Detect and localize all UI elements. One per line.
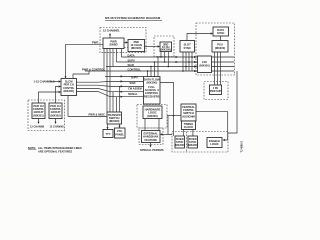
svg-text:SIGNAL: SIGNAL (128, 93, 138, 96)
svg-text:CONTROL: CONTROL (128, 68, 142, 72)
svg-text:SYNC: SYNC (183, 46, 191, 50)
svg-text:SWBD: SWBD (109, 43, 117, 47)
svg-text:CW ASSEM: CW ASSEM (128, 88, 142, 91)
svg-text:(MX300): (MX300) (188, 143, 198, 147)
svg-text:12 CHANNS: 12 CHANNS (50, 126, 65, 129)
svg-text:SPECIAL PERFMS: SPECIAL PERFMS (140, 148, 164, 152)
svg-text:1-12 CHANNELS: 1-12 CHANNELS (34, 79, 55, 83)
svg-text:SUPV: SUPV (128, 58, 136, 62)
svg-text:(MX300): (MX300) (64, 89, 74, 93)
svg-text:(MX301): (MX301) (33, 113, 43, 117)
svg-text:(MX300): (MX300) (215, 46, 225, 50)
svg-text:12 CHANNS: 12 CHANNS (30, 126, 45, 129)
svg-text:PANEL: PANEL (115, 133, 124, 137)
svg-text:(MX300): (MX300) (109, 119, 119, 123)
svg-text:PWR & CONTROL: PWR & CONTROL (82, 68, 105, 72)
svg-text:DATA: DATA (128, 53, 135, 57)
svg-text:PWR SUP: PWR SUP (210, 90, 222, 93)
svg-text:SYNC: SYNC (217, 31, 225, 35)
svg-text:SIAD: SIAD (128, 63, 134, 67)
svg-text:RECEIVERS: RECEIVERS (144, 94, 160, 98)
svg-text:CLOCK: CLOCK (184, 125, 194, 129)
svg-text:SUPV: SUPV (131, 76, 138, 79)
svg-text:SLOT: SLOT (184, 42, 192, 46)
svg-text:PWR: PWR (92, 41, 98, 45)
svg-text:LSU: LSU (202, 60, 207, 64)
svg-text:SIAD: SIAD (130, 82, 136, 85)
svg-text:ALL ITEMS WITHIN BARKER LINES: ALL ITEMS WITHIN BARKER LINES (38, 146, 82, 150)
svg-text:NOTE:: NOTE: (28, 146, 36, 150)
svg-text:(MX300): (MX300) (199, 64, 209, 68)
svg-text:PSU: PSU (217, 42, 223, 46)
svg-text:ASSIGNM: ASSIGNM (182, 114, 195, 118)
svg-text:TJ 4800-2: TJ 4800-2 (241, 140, 244, 152)
svg-text:(MX300): (MX300) (161, 48, 171, 52)
svg-text:ENABLE: ENABLE (209, 139, 220, 143)
svg-text:LOGIC: LOGIC (210, 142, 219, 146)
svg-text:(MX302): (MX302) (50, 113, 60, 117)
svg-text:(MX300): (MX300) (147, 114, 157, 118)
svg-text:(MX300): (MX300) (131, 46, 141, 50)
svg-text:TTY: TTY (105, 132, 110, 136)
svg-text:VOL: VOL (117, 129, 123, 133)
svg-text:(MX300): (MX300) (175, 143, 185, 147)
svg-text:PWR & MISC: PWR & MISC (89, 112, 105, 116)
svg-text:12 CHANNEL: 12 CHANNEL (103, 28, 120, 32)
svg-text:FEATURE: FEATURE (144, 138, 157, 142)
svg-text:ARE OPTIONAL FEATURES: ARE OPTIONAL FEATURES (38, 149, 72, 153)
svg-text:MT-38 SYSTEM SCHEMATIC DIAGRAM: MT-38 SYSTEM SCHEMATIC DIAGRAM (105, 16, 161, 20)
svg-text:(MX300): (MX300) (147, 81, 157, 85)
